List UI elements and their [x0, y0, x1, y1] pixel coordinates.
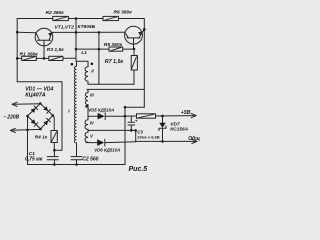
node R4 bottom C1 top	[53, 149, 56, 152]
node C2 bottom	[75, 163, 78, 166]
arrow +5V output	[191, 114, 196, 118]
bridge rectifier VD1-VD4	[26, 102, 54, 130]
capacitor C1	[47, 150, 58, 164]
svg-text:R4 1к: R4 1к	[35, 135, 48, 140]
wire winding III top to right rail	[87, 89, 145, 92]
svg-text:VT1,VT2: VT1,VT2	[55, 25, 75, 31]
wire bottom rail	[28, 164, 126, 166]
phasing dot primary	[71, 63, 74, 66]
node C3 bottom	[130, 129, 133, 132]
resistor R4	[51, 115, 57, 150]
transistor VT1	[35, 28, 53, 58]
resistor R5	[109, 47, 123, 51]
wire top rail	[17, 18, 144, 20]
transformer winding V	[85, 130, 88, 142]
transformer winding II	[85, 67, 88, 84]
transformer winding III	[85, 93, 88, 105]
svg-text:+: +	[135, 118, 138, 123]
wire vertical node 2	[98, 32, 100, 84]
wire winding III bottom to VD5	[87, 105, 89, 117]
wire mains line 1	[14, 103, 41, 106]
resistor R6	[103, 16, 118, 20]
node mains 2 crossing	[26, 129, 29, 132]
transformer winding IV	[85, 116, 88, 130]
wire riser rail to bottom	[124, 107, 126, 164]
arrow mains 2	[10, 128, 15, 132]
node R5 left	[75, 48, 78, 51]
wire left vertex down to bottom rail	[27, 116, 29, 165]
wire VT1 collector to left rail	[17, 31, 36, 34]
node VT2 base R5 R7	[133, 48, 136, 51]
node collector tap	[16, 31, 19, 34]
node VT2 emitter on right rail	[143, 28, 146, 31]
svg-text:R7 1,5к: R7 1,5к	[105, 59, 124, 65]
svg-text:VD5 КД510А: VD5 КД510А	[88, 107, 114, 112]
resistor R1	[22, 56, 37, 60]
svg-text:R6 360к: R6 360к	[114, 10, 133, 16]
wire right rail	[125, 19, 144, 108]
svg-text:R5 360к: R5 360к	[104, 42, 123, 48]
resistor R2	[53, 16, 69, 20]
resistor R3	[49, 56, 63, 60]
resistor R7	[131, 49, 137, 84]
transformer primary I	[74, 66, 76, 143]
svg-text:22мк х 6,3В: 22мк х 6,3В	[136, 135, 159, 140]
svg-text:R3 1,5к: R3 1,5к	[47, 47, 64, 53]
phasing dot winding II	[91, 63, 94, 66]
wire transformer top	[76, 61, 88, 67]
resistor R8	[137, 114, 156, 118]
svg-text:VD6 КД510А: VD6 КД510А	[94, 148, 120, 153]
wire R1 leads	[17, 57, 49, 59]
wire left rail	[16, 19, 18, 82]
svg-text:− 220В: − 220В	[3, 114, 20, 120]
wire mains line 2	[12, 128, 41, 131]
phasing dot winding III	[85, 105, 88, 108]
node rail riser top	[124, 106, 127, 109]
svg-text:R2 360к: R2 360к	[46, 10, 65, 16]
svg-text:Рис.5: Рис.5	[129, 166, 148, 173]
svg-text:КС156А: КС156А	[170, 127, 188, 133]
node C1 bottom	[53, 163, 56, 166]
wire primary bottom to C2	[76, 143, 78, 165]
wire emitter VT1 to collector VT2	[52, 31, 125, 33]
svg-text:Общ: Общ	[188, 135, 200, 142]
svg-text:R1 360к: R1 360к	[20, 51, 39, 57]
node R1 left	[16, 57, 19, 60]
svg-text:КЦ407А: КЦ407А	[25, 92, 46, 98]
svg-text:0,75 мк: 0,75 мк	[25, 157, 43, 163]
node on emitter wire at vertical 2	[98, 31, 101, 34]
capacitor C2	[71, 157, 82, 160]
arrow mains 1	[12, 102, 17, 106]
diode VD6	[86, 139, 136, 146]
wire R5 row	[76, 48, 134, 50]
wire center tap	[88, 130, 136, 141]
capacitor C3	[128, 116, 135, 130]
svg-text:КТ605Б: КТ605Б	[78, 24, 96, 30]
arrow common output	[192, 139, 197, 143]
svg-text:L1: L1	[81, 50, 87, 56]
svg-text:C2 560: C2 560	[82, 156, 98, 162]
wire R3 to vertical 1	[63, 57, 76, 59]
node VD7 bottom	[161, 140, 164, 143]
node zener tap	[161, 115, 164, 118]
diode VD5	[88, 113, 125, 120]
node crossing vertical 2	[98, 48, 101, 51]
wire left rail to supply corner	[17, 82, 62, 150]
node junction R2-R6	[75, 17, 78, 20]
zener diode VD7	[159, 116, 166, 141]
node on emitter wire at vertical 1	[75, 31, 78, 34]
wire common rail	[136, 140, 197, 142]
wire plus output row	[125, 115, 196, 118]
transistor VT2	[125, 26, 145, 49]
node center tap corner	[134, 129, 137, 132]
wire vertical node 1	[75, 19, 77, 62]
wire winding II bottom to R7	[88, 83, 134, 85]
node VT1 base R1 R3	[43, 57, 46, 60]
svg-text:+5В: +5В	[181, 110, 191, 116]
node VD5 cathode vertical	[124, 115, 127, 118]
